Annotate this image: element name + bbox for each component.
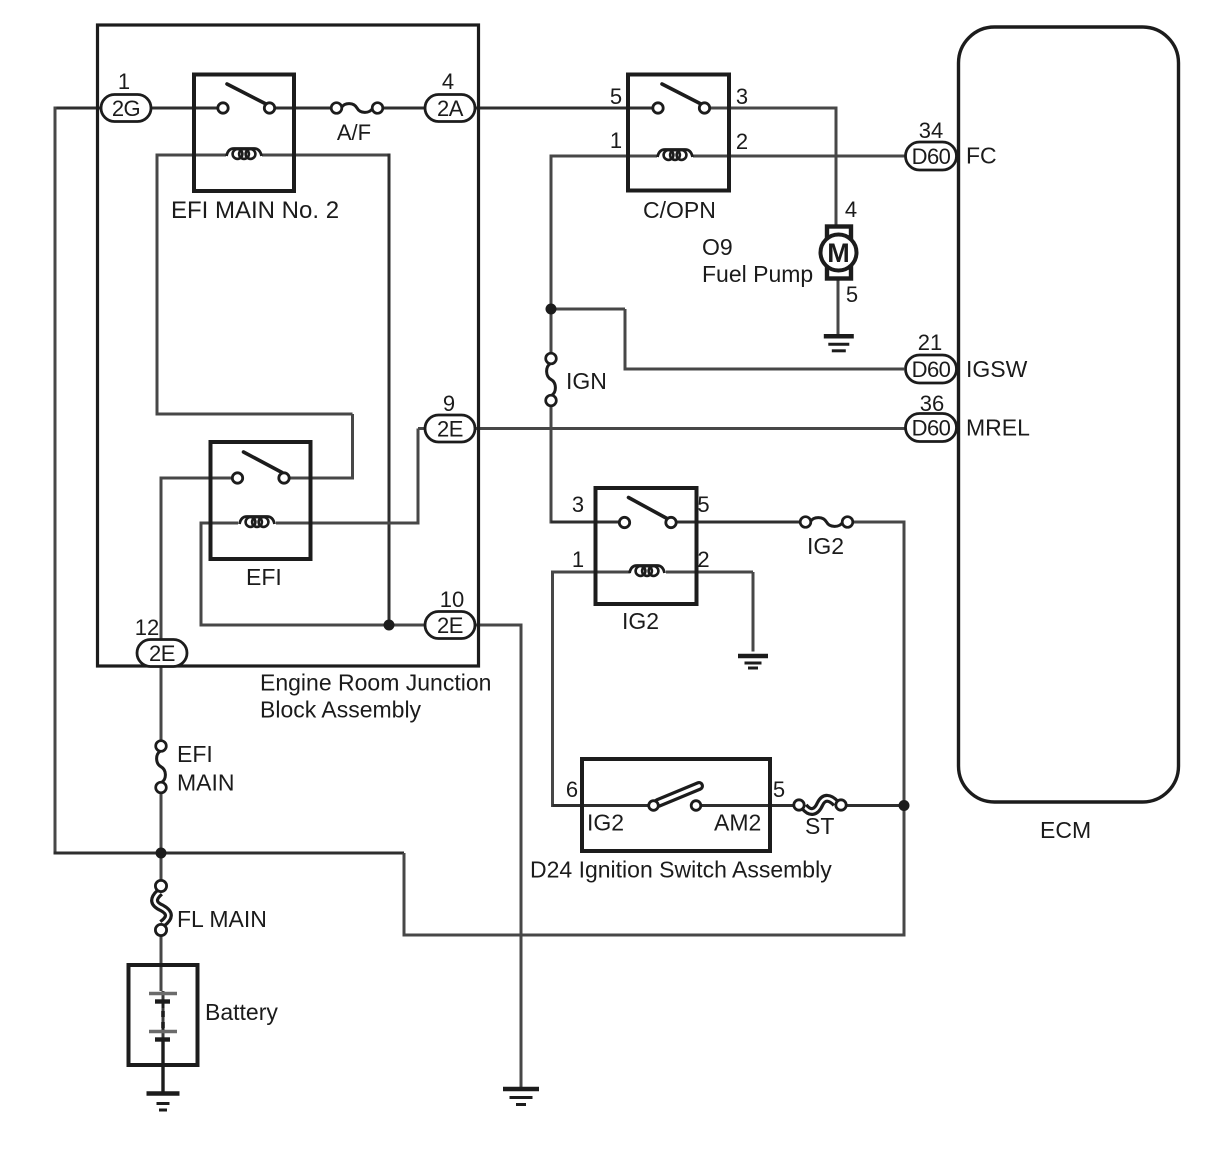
svg-text:IG2: IG2	[587, 810, 624, 836]
svg-text:AM2: AM2	[714, 810, 761, 836]
svg-text:1: 1	[118, 69, 130, 94]
svg-text:5: 5	[610, 84, 622, 109]
svg-text:1: 1	[572, 547, 584, 572]
svg-text:A/F: A/F	[337, 120, 371, 145]
svg-text:10: 10	[440, 587, 464, 612]
svg-text:MREL: MREL	[966, 415, 1030, 441]
svg-text:9: 9	[443, 391, 455, 416]
svg-text:M: M	[827, 238, 850, 268]
svg-text:2E: 2E	[437, 613, 463, 638]
svg-text:ST: ST	[805, 813, 834, 839]
svg-text:IGN: IGN	[566, 368, 607, 394]
svg-text:2: 2	[697, 547, 709, 572]
svg-text:D60: D60	[912, 357, 951, 382]
svg-text:Block Assembly: Block Assembly	[260, 697, 422, 723]
svg-text:D60: D60	[912, 415, 951, 440]
svg-text:EFI MAIN No. 2: EFI MAIN No. 2	[171, 197, 339, 224]
svg-text:4: 4	[845, 197, 857, 222]
svg-text:4: 4	[442, 69, 454, 94]
svg-text:6: 6	[566, 777, 578, 802]
svg-text:Battery: Battery	[205, 999, 278, 1025]
svg-text:ECM: ECM	[1040, 817, 1091, 843]
svg-text:2A: 2A	[437, 96, 464, 121]
svg-text:EFI: EFI	[246, 564, 282, 590]
svg-text:36: 36	[920, 391, 944, 416]
svg-text:D24 Ignition Switch Assembly: D24 Ignition Switch Assembly	[530, 857, 832, 883]
svg-text:MAIN: MAIN	[177, 770, 235, 796]
svg-text:2E: 2E	[149, 641, 175, 666]
svg-text:FC: FC	[966, 143, 997, 169]
svg-text:1: 1	[610, 128, 622, 153]
svg-text:EFI: EFI	[177, 741, 213, 767]
svg-text:21: 21	[918, 330, 942, 355]
svg-text:Fuel Pump: Fuel Pump	[702, 261, 813, 287]
svg-text:12: 12	[135, 615, 159, 640]
svg-text:3: 3	[572, 492, 584, 517]
svg-text:IG2: IG2	[622, 608, 659, 634]
svg-text:5: 5	[773, 777, 785, 802]
svg-text:O9: O9	[702, 234, 733, 260]
svg-text:2: 2	[736, 129, 748, 154]
svg-text:FL MAIN: FL MAIN	[177, 906, 267, 932]
svg-text:3: 3	[736, 84, 748, 109]
svg-text:IGSW: IGSW	[966, 356, 1028, 382]
svg-text:2G: 2G	[112, 96, 140, 121]
svg-text:D60: D60	[912, 144, 951, 169]
svg-text:5: 5	[697, 492, 709, 517]
svg-text:5: 5	[846, 282, 858, 307]
svg-text:Engine Room Junction: Engine Room Junction	[260, 670, 491, 696]
svg-text:C/OPN: C/OPN	[643, 197, 716, 223]
svg-text:34: 34	[919, 118, 943, 143]
svg-text:IG2: IG2	[807, 533, 844, 559]
svg-text:2E: 2E	[437, 416, 463, 441]
